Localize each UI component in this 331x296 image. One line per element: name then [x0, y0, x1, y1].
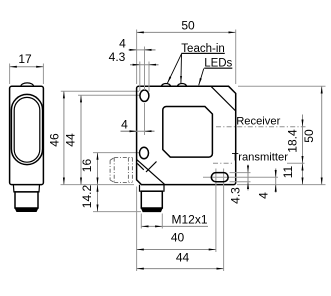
- svg-text:46: 46: [48, 133, 62, 147]
- dimension 4 right line: [275, 169, 277, 193]
- svg-text:44: 44: [176, 251, 190, 265]
- dimension 4 middle line: [121, 130, 155, 132]
- dimension 50 right line: [321, 86, 323, 184]
- chamfer tick bottom-left: [146, 162, 157, 173]
- receiver optical axis: [216, 126, 306, 128]
- side view connector nut band: [15, 208, 38, 212]
- svg-text:M12x1: M12x1: [172, 213, 208, 227]
- dimension 44 bottom line: [137, 268, 224, 270]
- dimension 40 line: [137, 249, 216, 251]
- dimension 18.4 line: [302, 115, 304, 164]
- dimension 17 extension lines: [9, 64, 11, 85]
- dimension 4.3 top line: [130, 64, 159, 66]
- front connector barrel: [141, 191, 162, 208]
- svg-text:11: 11: [281, 165, 295, 178]
- extension line hole centre (44 left): [78, 94, 140, 96]
- svg-text:17: 17: [18, 52, 32, 66]
- extension line bottom hole centre (16): [93, 152, 139, 154]
- front view body outline: [137, 86, 236, 184]
- svg-text:LEDs: LEDs: [204, 58, 232, 70]
- svg-text:Transmitter: Transmitter: [232, 152, 288, 164]
- leader to LED bump 2: [180, 54, 183, 83]
- extension line lens apex (46): [61, 90, 139, 92]
- leader to LEDs area: [199, 69, 204, 86]
- extension line connector tip (14.2): [93, 211, 141, 213]
- LED bump 2: [178, 84, 187, 87]
- svg-text:Receiver: Receiver: [236, 115, 280, 127]
- phantom rotated connector: [110, 158, 132, 183]
- extension body left edge up (50/4): [136, 30, 138, 85]
- extension body left edge down (40/44): [136, 187, 138, 272]
- extension body right edge up (50): [235, 30, 237, 85]
- extension connector barrel sides down (M12x1): [140, 214, 142, 229]
- side view connector step: [13, 185, 39, 192]
- LED bump 1: [162, 84, 171, 87]
- front connector step: [140, 185, 165, 191]
- svg-text:16: 16: [80, 159, 94, 173]
- side view connector barrel: [15, 192, 38, 208]
- svg-text:4: 4: [121, 118, 128, 132]
- extension body top right (50 right): [238, 85, 326, 87]
- svg-text:40: 40: [171, 231, 185, 245]
- dimension 11 line: [302, 163, 304, 184]
- dimension 4 top line: [129, 49, 156, 51]
- svg-text:4.3: 4.3: [229, 187, 243, 204]
- svg-text:4: 4: [257, 192, 271, 199]
- extension body bottom right (50 right): [237, 184, 326, 186]
- mounting hole bottom: [140, 147, 149, 158]
- mounting slot: [211, 173, 228, 182]
- extension hole edges up (4.3): [139, 62, 141, 92]
- lens window: [163, 107, 213, 158]
- dimension M12x1 line: [141, 225, 162, 227]
- svg-text:4.3: 4.3: [109, 50, 126, 64]
- chamfer edge line top-right: [211, 86, 236, 111]
- dimension 14.2 line: [97, 185, 99, 212]
- side view body: [10, 86, 44, 184]
- transmitter optical axis: [213, 162, 234, 164]
- mounting hole top: [140, 90, 149, 101]
- svg-text:14.2: 14.2: [80, 184, 94, 208]
- svg-text:44: 44: [64, 133, 78, 147]
- transmitter axis extension right: [287, 162, 305, 164]
- svg-text:18.4: 18.4: [285, 129, 299, 153]
- side view lens outer obround: [11, 94, 42, 164]
- svg-text:50: 50: [302, 129, 316, 143]
- svg-text:50: 50: [181, 19, 195, 33]
- extension slot top/bottom right (4.3): [230, 172, 251, 174]
- extension line body bottom left: [61, 184, 135, 186]
- slot extension verticals (40/44): [215, 169, 217, 253]
- chamfer edge line bottom-left: [137, 160, 165, 185]
- dimension 17 line: [10, 66, 44, 68]
- dimension 50 top line: [137, 31, 236, 33]
- dimension 4.3 right line: [247, 165, 249, 191]
- side view lens inner arch: [14, 97, 40, 162]
- dimension 46 line: [63, 91, 65, 184]
- extension hole centre down (4 mid): [144, 103, 146, 135]
- dimension 44 left line: [80, 95, 82, 184]
- front connector nut band: [141, 208, 162, 212]
- extension hole centre up (4): [144, 47, 146, 91]
- leader to LED bump 1: [167, 54, 181, 84]
- chamfer inner edge bottom-left: [137, 163, 144, 169]
- svg-text:Teach-in: Teach-in: [181, 43, 224, 55]
- side view top dome: [21, 83, 34, 86]
- dimension 16 line: [97, 153, 99, 185]
- extension slot centre right (4): [203, 176, 278, 178]
- svg-text:4: 4: [119, 37, 126, 51]
